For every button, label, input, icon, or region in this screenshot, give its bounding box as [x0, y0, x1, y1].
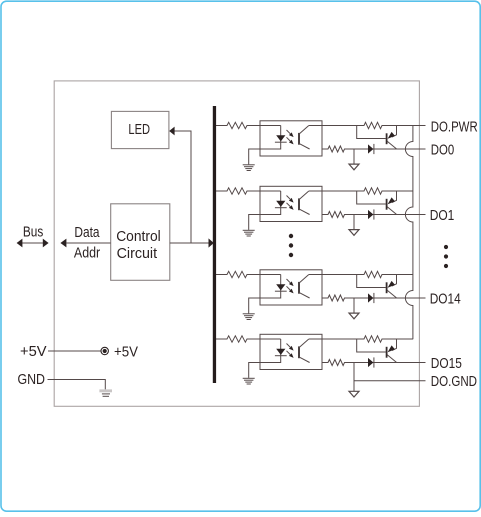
svg-text:DO.PWR: DO.PWR — [431, 119, 478, 136]
svg-text:LED: LED — [128, 121, 150, 138]
svg-text:Bus: Bus — [23, 224, 43, 241]
svg-text:DO.GND: DO.GND — [431, 373, 477, 390]
svg-text:+5V: +5V — [20, 343, 47, 360]
svg-text:Addr: Addr — [74, 245, 100, 262]
svg-text:Control: Control — [116, 228, 161, 245]
svg-text:DO0: DO0 — [431, 141, 454, 158]
svg-text:GND: GND — [18, 371, 46, 388]
svg-text:DO15: DO15 — [431, 355, 462, 372]
svg-text:DO14: DO14 — [430, 291, 461, 308]
svg-text:Circuit: Circuit — [117, 245, 158, 262]
svg-text:+5V: +5V — [114, 344, 138, 361]
svg-text:DO1: DO1 — [430, 207, 455, 224]
svg-text:Data: Data — [74, 224, 100, 241]
